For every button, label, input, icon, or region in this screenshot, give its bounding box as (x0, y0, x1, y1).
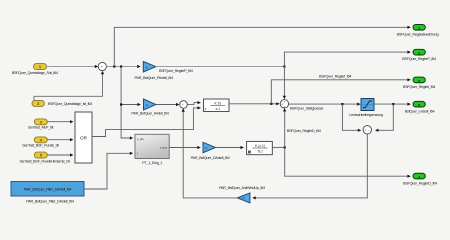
svg-text:BSFQuer_ReglerD_f64: BSFQuer_ReglerD_f64 (403, 182, 437, 186)
wire sat output branch down to sum4 right (375, 104, 393, 132)
constant block PAR_BsfQuer_Filter_DAnteil_f64 (11, 182, 84, 204)
outport 3 BSFQuer_ReglerI_f64 (403, 77, 435, 89)
svg-text:PAR_BsfQuer_Filter_DAnteil_f64: PAR_BsfQuer_Filter_DAnteil_f64 (26, 200, 74, 204)
wire I gain to sum2 (156, 103, 180, 106)
svg-text:BSFQuer_ReglerI_f64: BSFQuer_ReglerI_f64 (319, 74, 351, 78)
wire error to outport1 (up and right) (114, 26, 411, 67)
inport 1 BSFQuer_Querablage_Soll_f64 (12, 63, 58, 75)
wire P branch up to outport2 (284, 51, 410, 67)
wire anti-windup gain left and up to sum2 bottom (182, 108, 238, 198)
svg-text:PAR_BsfQuer_AntiWindUp_f64: PAR_BsfQuer_AntiWindUp_f64 (219, 186, 265, 190)
svg-text:BSFQuer_ReglerI_f64: BSFQuer_ReglerI_f64 (403, 85, 435, 89)
wire saturation to outport LwSoll (374, 103, 411, 106)
outport 5 BsfQuer_LwSoll_f64 (405, 101, 435, 113)
saturation block Lenkwinkelbegrenzung (349, 99, 382, 118)
svg-text:Lenkwinkelbegrenzung: Lenkwinkelbegrenzung (349, 113, 382, 117)
wire derivative out with D branch (272, 146, 284, 148)
wire inport5 to OR (47, 153, 73, 156)
wire sat input branch down to sum4 left (342, 104, 361, 132)
svg-text:SenTast_BSF_Rundk_bit: SenTast_BSF_Rundk_bit (22, 143, 60, 147)
wire PT_1 x_aus to D gain (169, 146, 201, 149)
svg-text:-K-: -K- (205, 146, 209, 150)
svg-text:SenTast_AEP_bit: SenTast_AEP_bit (28, 125, 55, 129)
junction dot node sat-output-branch (392, 103, 394, 105)
outport 2 BSFQuer_ReglerP_f64 (402, 49, 436, 61)
svg-text:PT_1_Eing_1: PT_1_Eing_1 (142, 161, 162, 165)
wire D branch up to sum3 bottom (283, 108, 286, 147)
svg-text:+: + (364, 128, 366, 132)
wire I branch up to outport3 (271, 78, 411, 104)
wire integrator out to sum3 (229, 102, 280, 105)
inport 3 SenTast_AEP_bit (28, 119, 55, 129)
wire D branch down to outport4 (285, 147, 411, 177)
svg-text:BSFQuer_ReglerP_f64: BSFQuer_ReglerP_f64 (159, 69, 193, 73)
wire inport3 to OR (47, 120, 73, 123)
svg-text:+: + (283, 100, 285, 104)
junction dot node P-branch (283, 65, 285, 67)
outport 4 BSFQuer_ReglerD_f64 (403, 173, 437, 185)
svg-text:Ts z: Ts z (257, 149, 263, 153)
wire error vertical down to I gain and PT1 (121, 67, 141, 140)
wire sum4 down and left to anti-windup gain (252, 134, 367, 199)
wire constant to PT_1 f input (84, 152, 133, 189)
inport 2 BSFQuer_Querablage_Ist_f64 (32, 101, 92, 107)
gain P PAR_BsfQuer_PAnteil_f64 (135, 62, 174, 81)
wire inport4 to OR (47, 138, 73, 141)
svg-text:SenTast_BSF_RundkHindernis_bit: SenTast_BSF_RundkHindernis_bit (19, 159, 70, 163)
subsystem PT_1_Eing_1 (135, 134, 169, 165)
wire sum1 to P gain (106, 65, 140, 68)
svg-text:-: - (368, 128, 369, 132)
svg-text:+: + (283, 105, 285, 109)
svg-text:PAR_BsfQuer_Filter_DAnteil_f64: PAR_BsfQuer_Filter_DAnteil_f64 (24, 187, 72, 191)
svg-text:x_ein: x_ein (137, 137, 144, 141)
sum junction sum2 (I anti-windup) (180, 101, 188, 110)
svg-text:BSFQuer_Querablage_Soll_f64: BSFQuer_Querablage_Soll_f64 (12, 71, 58, 75)
wire D gain to derivative block (216, 146, 244, 149)
wire sum2 to integrator input 1 (187, 101, 201, 104)
sum junction sum1 (error = Soll - Ist) (98, 62, 106, 72)
junction dot node error-to-port1 (113, 65, 115, 67)
svg-text:PAR_BsfQuer_IAnteil_f64: PAR_BsfQuer_IAnteil_f64 (131, 112, 168, 116)
wire P gain to P branch node (156, 66, 285, 68)
svg-text:BsfQuer_LwSoll_f64: BsfQuer_LwSoll_f64 (405, 110, 435, 114)
junction dot node error-to-Igain (120, 103, 122, 105)
svg-text:-K-: -K- (145, 65, 149, 69)
svg-text:-: - (101, 68, 102, 72)
svg-text:PAR_BsfQuer_DAnteil_f64: PAR_BsfQuer_DAnteil_f64 (191, 156, 230, 160)
svg-text:-K-: -K- (242, 196, 246, 200)
wire inport2 to sum1 (routes up and over) (34, 71, 104, 101)
inport 4 SenTast_BSF_Rundk_bit (22, 137, 60, 148)
inport 5 SenTast_BSF_RundkHindernis_bit (19, 152, 70, 163)
svg-text:x_aus: x_aus (160, 146, 168, 150)
outport 1 BSFQuer_Regelabweichung (397, 25, 439, 37)
discrete derivative block K(z-1)/Ts z (247, 141, 273, 154)
svg-text:PAR_BsfQuer_PAnteil_f64: PAR_BsfQuer_PAnteil_f64 (135, 76, 174, 80)
svg-text:BSFQuer_ReglerD_f64: BSFQuer_ReglerD_f64 (287, 129, 321, 133)
svg-text:K Ts: K Ts (215, 101, 222, 105)
junction dot node error-down (120, 65, 122, 67)
sum junction sum4 (windup difference) (363, 126, 371, 134)
svg-text:OR: OR (80, 136, 88, 141)
wire P branch down to sum3 top (283, 67, 286, 100)
junction dot node D-branch (284, 146, 286, 148)
sum junction sum3 (P+I+D Stellgroesse) (280, 100, 288, 110)
gain D PAR_BsfQuer_DAnteil_f64 (191, 142, 230, 160)
svg-text:BSFQuer_ReglerP_f64: BSFQuer_ReglerP_f64 (402, 57, 436, 61)
svg-text:BSFQuer_Querablage_Ist_f64: BSFQuer_Querablage_Ist_f64 (48, 102, 92, 106)
svg-text:K (z-1): K (z-1) (255, 144, 265, 148)
wire OR to integrator reset port (92, 106, 201, 136)
gain anti-windup PAR_BsfQuer_AntiWindUp_f64 (points left) (219, 186, 265, 203)
wire inport1 to sum1 (47, 65, 99, 68)
logical operator block OR (75, 112, 92, 163)
svg-text:-K-: -K- (145, 103, 149, 107)
svg-text:z-1: z-1 (215, 107, 220, 111)
svg-text:BSFQuer_Stellgroesse: BSFQuer_Stellgroesse (290, 106, 323, 110)
integrator block K Ts / z-1 (204, 99, 230, 112)
gain I PAR_BsfQuer_IAnteil_f64 (131, 99, 168, 116)
wire sum3 to saturation (289, 103, 361, 106)
svg-text:BSFQuer_Regelabweichung: BSFQuer_Regelabweichung (397, 33, 439, 37)
junction dot node I-branch (270, 103, 272, 105)
junction dot node sat-input-branch (341, 103, 343, 105)
